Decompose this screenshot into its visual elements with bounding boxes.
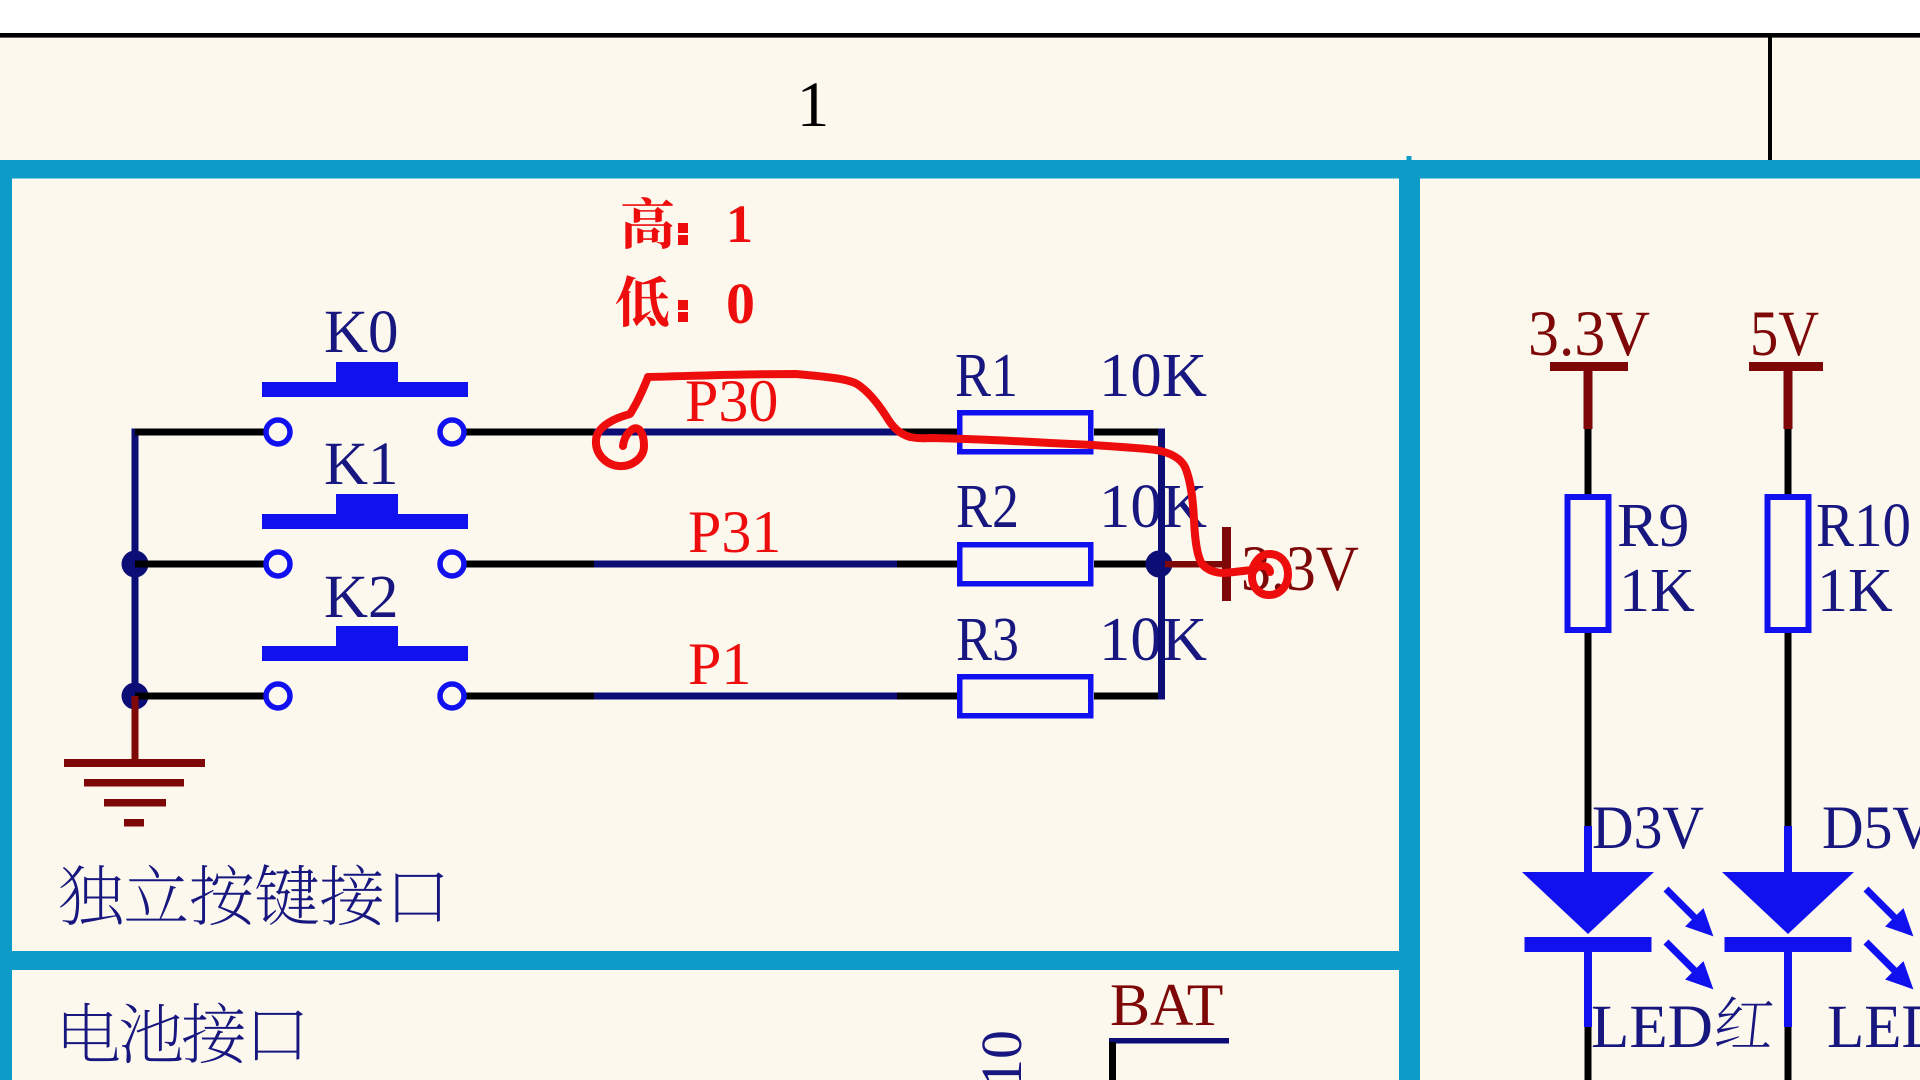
ground bar 4 [124,819,144,827]
power symbol 3.3V at junction : bar [1222,527,1231,601]
svg-text:K1: K1 [324,431,399,498]
switch K0 pin 1 circle [266,420,290,444]
wire R2 right [1094,561,1146,568]
wire R10 top (black) [1785,429,1792,494]
wire right vertical bus [1158,429,1165,700]
wire left vertical bus [132,429,139,700]
wire D3V bottom (black) [1585,1027,1592,1080]
svg-text:R9: R9 [1617,492,1689,560]
svg-text:3.3V: 3.3V [1528,298,1650,370]
wire row1 left segment [135,429,264,436]
wire D5V bottom (black) [1785,1027,1792,1080]
LED D3V cathode bar [1525,937,1652,952]
wire row3 switch to net segment (black) [466,693,594,700]
svg-text:BAT: BAT [1110,972,1223,1038]
svg-text:P1: P1 [688,631,751,697]
junction node row3 left [122,683,149,710]
annotation red pen loop on P30 wire [596,377,648,466]
resistor R2 body [960,545,1091,584]
svg-text:1: 1 [726,194,753,254]
panel frame divider top nub [1407,156,1412,162]
svg-text:R10: R10 [1816,492,1911,560]
svg-text:5V: 5V [1750,298,1819,370]
svg-text:LED: LED [1827,994,1920,1061]
power symbol 5V : bar [1749,362,1823,371]
LED D5V triangle [1722,872,1854,934]
svg-text:R3: R3 [956,606,1019,674]
wire R3 right [1094,693,1162,700]
ground bar 2 [84,779,184,787]
svg-text:1K: 1K [1817,557,1893,625]
svg-text:1K: 1K [1619,557,1695,625]
LED D5V light arrow 2 [1857,933,1920,999]
panel frame top band [0,160,1920,179]
wire row2 left segment [135,561,264,568]
switch K1 pin 1 circle [266,552,290,576]
switch K1 pin 2 circle [440,552,464,576]
sheet border vertical divider [1768,35,1772,162]
svg-text:K2: K2 [324,564,399,631]
section title 独立按键接口 [60,864,443,925]
annotation 低：0 [616,271,755,336]
wire BAT net segment (navy) [1109,1038,1229,1044]
switch K2 body bar [262,646,468,661]
svg-text:LED: LED [1591,994,1713,1061]
wire R9 top (black) [1585,429,1592,494]
switch K0 pin 2 circle [440,420,464,444]
switch K0 body bar [262,382,468,397]
power symbol 3.3V : bar [1550,362,1628,371]
LED D5V anode stem (blue) [1784,826,1792,874]
LED D3V cathode stem (blue) [1584,952,1592,1027]
wire R1 right [1094,429,1162,436]
power symbol 3.3V at junction : wire stub [1165,561,1222,568]
svg-text:10: 10 [969,1030,1034,1080]
wire row3 left segment [135,693,264,700]
switch K1 body bar [262,514,468,529]
LED D3V light arrow 2 [1657,933,1723,999]
LED D5V light arrow 1 [1857,880,1920,946]
power symbol 3.3V : stem [1584,371,1593,429]
LED D3V triangle [1522,872,1654,934]
power symbol 5V : stem [1784,371,1793,429]
LED D3V anode stem (blue) [1584,826,1592,874]
panel frame left band [0,160,12,1080]
ground stem [132,696,139,759]
resistor R1 body [960,413,1091,452]
panel frame middle band [0,951,1399,970]
switch K2 knob [336,626,398,646]
annotation 高：1 [622,194,753,254]
svg-text:R1: R1 [955,342,1018,410]
sheet top border line [0,33,1920,38]
ground bar 3 [104,799,166,807]
LED D5V cathode stem (blue) [1784,952,1792,1027]
wire R9 bottom (black) [1585,633,1592,826]
svg-text:1: 1 [797,69,830,141]
ground bar 1 [64,759,205,767]
wire row2 to resistor (black) [897,561,958,568]
section title 电池接口 [64,1003,303,1064]
switch K2 pin 2 circle [440,684,464,708]
wire row2 switch to net segment (black) [466,561,594,568]
LED D5V cathode bar [1725,937,1852,952]
wire R10 bottom (black) [1785,633,1792,826]
panel frame vertical divider [1399,160,1420,1080]
resistor R10 body [1768,497,1809,630]
junction node pull-up common [1146,551,1173,578]
wire row1 switch to net segment (black) [466,429,594,436]
junction node row2 left [122,551,149,578]
resistor R9 body [1568,497,1609,630]
wire BAT vertical (black) [1109,1042,1116,1080]
resistor R3 body [960,677,1091,716]
switch K2 pin 1 circle [266,684,290,708]
wire row3 net segment (navy) [594,693,897,700]
annotation red pen stroke [648,374,1288,595]
wire row2 net segment (navy) [594,561,897,568]
svg-text:D5V: D5V [1822,795,1920,862]
wire row3 to resistor (black) [897,693,958,700]
svg-text:D3V: D3V [1592,795,1704,862]
LED D3V light arrow 1 [1657,880,1723,946]
wire row1 to resistor (black) [897,429,958,436]
svg-text:10K: 10K [1099,342,1207,410]
svg-text:R2: R2 [956,473,1019,541]
svg-text:0: 0 [726,271,755,336]
switch K0 knob [336,362,398,382]
svg-text:K0: K0 [324,299,399,366]
wire row1 net segment (navy) [594,429,897,436]
switch K1 knob [336,494,398,514]
svg-text:10K: 10K [1099,606,1207,674]
svg-text:P31: P31 [688,499,781,565]
